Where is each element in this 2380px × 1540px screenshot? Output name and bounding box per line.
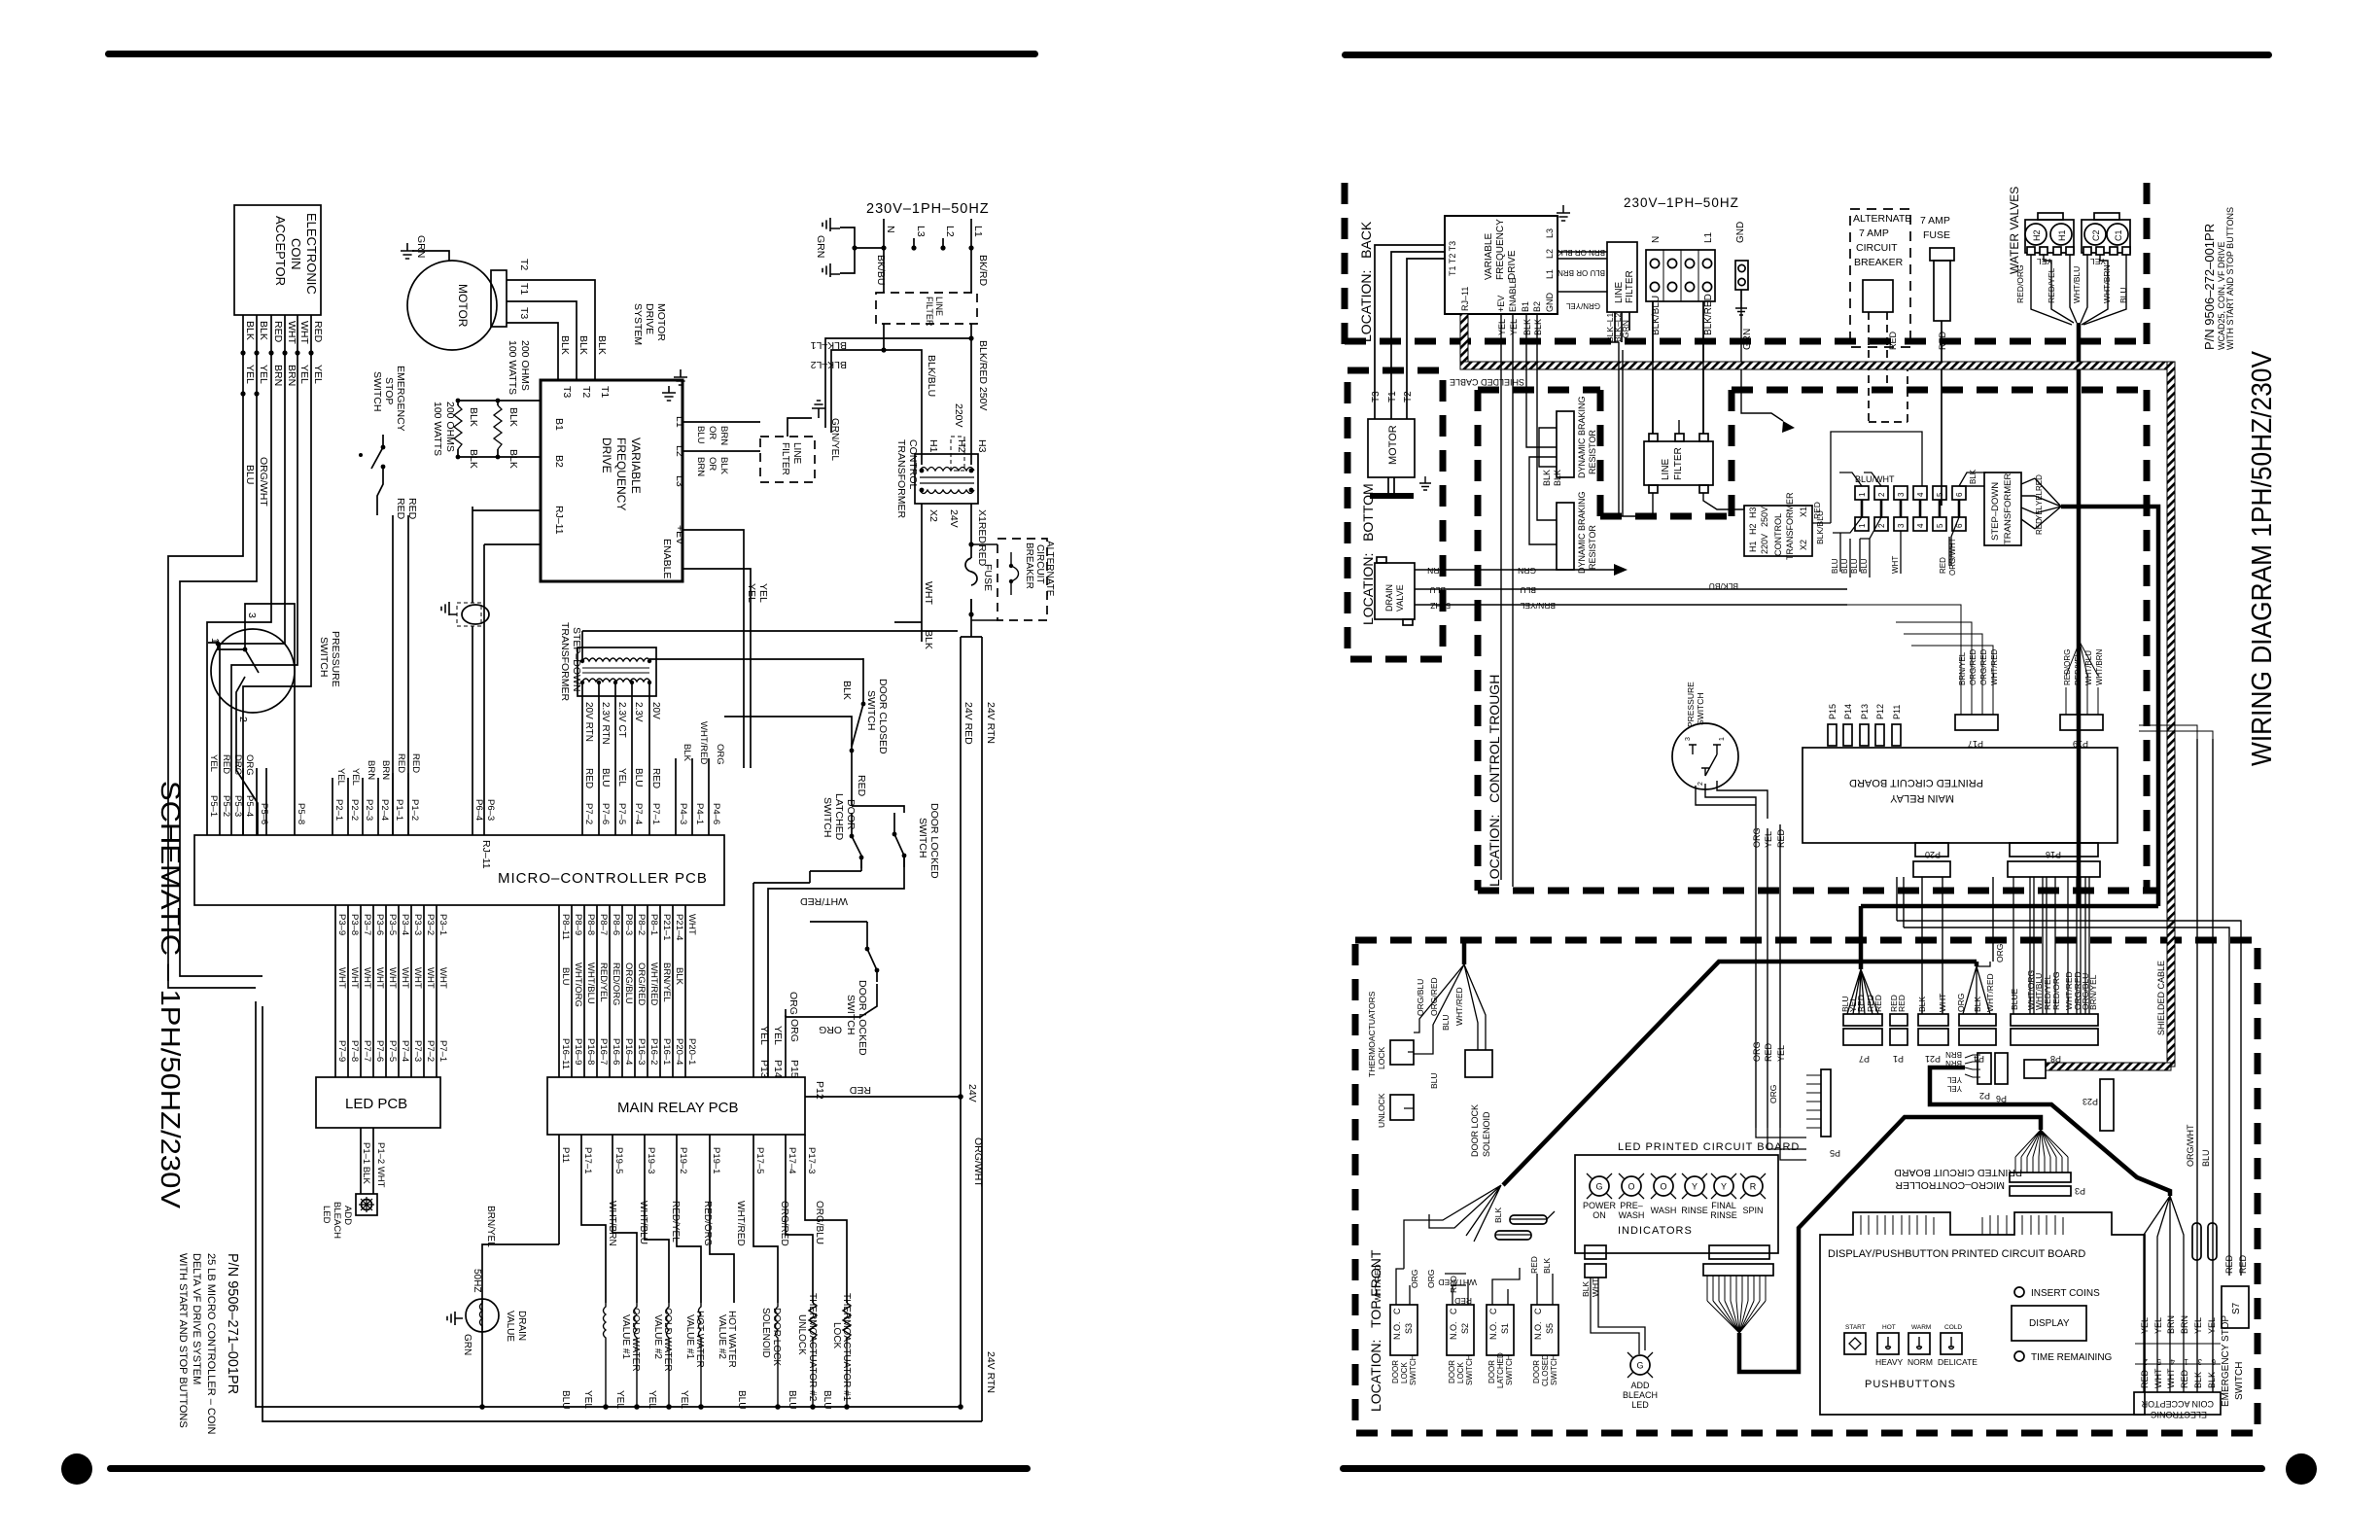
svg-text:BLU: BLU xyxy=(2201,1149,2211,1167)
svg-text:P6–3: P6–3 xyxy=(485,799,496,821)
svg-text:BRN: BRN xyxy=(2180,1315,2189,1334)
svg-text:RED: RED xyxy=(1812,502,1822,519)
svg-text:ENABLE: ENABLE xyxy=(1508,277,1518,312)
svg-text:SWITCH: SWITCH xyxy=(1409,1354,1417,1385)
svg-text:VARIABLE: VARIABLE xyxy=(629,437,643,494)
svg-text:X2: X2 xyxy=(1799,540,1808,550)
svg-text:6: 6 xyxy=(1955,492,1964,497)
svg-text:P2–2: P2–2 xyxy=(349,799,360,821)
svg-text:P21–1: P21–1 xyxy=(661,914,672,940)
svg-text:CIRCUIT: CIRCUIT xyxy=(1034,544,1045,584)
svg-text:YEL: YEL xyxy=(2207,1317,2217,1334)
svg-text:DISPLAY/PUSHBUTTON PRINTED C: DISPLAY/PUSHBUTTON PRINTED CIRCUIT BOARD xyxy=(1828,1248,2085,1260)
svg-text:DOOR: DOOR xyxy=(1448,1360,1456,1383)
svg-text:P7–6: P7–6 xyxy=(600,803,611,824)
svg-text:SWITCH: SWITCH xyxy=(1550,1354,1558,1385)
svg-text:BLK: BLK xyxy=(468,407,479,427)
svg-text:T1: T1 xyxy=(599,386,611,398)
svg-text:TRANSFORMER: TRANSFORMER xyxy=(2003,473,2013,545)
svg-text:LATCHED: LATCHED xyxy=(1496,1352,1505,1388)
svg-text:ORG: ORG xyxy=(787,992,799,1015)
svg-text:WHT: WHT xyxy=(1938,994,1947,1012)
svg-text:GND: GND xyxy=(1735,222,1746,243)
svg-text:STOP: STOP xyxy=(383,377,395,404)
svg-text:P7–8: P7–8 xyxy=(349,1040,360,1062)
svg-text:SWITCH: SWITCH xyxy=(865,690,877,730)
svg-text:RED: RED xyxy=(1764,1042,1773,1062)
svg-text:WHT/BRN: WHT/BRN xyxy=(2095,648,2104,685)
svg-text:G: G xyxy=(1595,1182,1602,1192)
svg-text:DELICATE: DELICATE xyxy=(1938,1357,1977,1367)
svg-text:BLUE: BLUE xyxy=(2010,988,2019,1010)
svg-text:RED: RED xyxy=(395,498,406,520)
svg-text:WATER VALVES: WATER VALVES xyxy=(2008,187,2021,274)
svg-text:DOOR: DOOR xyxy=(1487,1360,1496,1383)
svg-text:DOOR CLOSED: DOOR CLOSED xyxy=(877,679,889,754)
svg-text:EMERGENCY STOP: EMERGENCY STOP xyxy=(2221,1315,2231,1407)
svg-text:P3–3: P3–3 xyxy=(412,914,423,935)
svg-text:3: 3 xyxy=(1897,523,1906,528)
svg-text:ENABLE: ENABLE xyxy=(661,539,673,578)
svg-text:T2: T2 xyxy=(580,386,592,398)
svg-text:BRN/YEL: BRN/YEL xyxy=(1958,651,1967,685)
svg-text:VALUE #1: VALUE #1 xyxy=(684,1314,695,1359)
svg-text:T3: T3 xyxy=(1371,391,1382,402)
svg-text:P17–5: P17–5 xyxy=(754,1147,765,1173)
svg-text:T3: T3 xyxy=(518,307,530,319)
svg-text:SPIN: SPIN xyxy=(1742,1206,1763,1215)
svg-text:RJ–11: RJ–11 xyxy=(553,506,565,535)
svg-text:ORG/RED: ORG/RED xyxy=(1969,648,1977,685)
svg-text:O: O xyxy=(1660,1182,1666,1192)
svg-text:BLK: BLK xyxy=(1542,470,1552,486)
svg-text:ACCEPTOR: ACCEPTOR xyxy=(273,216,288,286)
svg-text:G: G xyxy=(1636,1361,1643,1371)
svg-text:H2: H2 xyxy=(2032,229,2042,241)
svg-text:2: 2 xyxy=(1877,492,1886,497)
svg-text:S1: S1 xyxy=(1500,1323,1510,1334)
svg-text:CLOSED: CLOSED xyxy=(1541,1354,1550,1386)
svg-text:ORG: ORG xyxy=(788,1019,800,1042)
svg-text:BLK: BLK xyxy=(468,449,479,469)
svg-text:P2–1: P2–1 xyxy=(333,799,344,821)
svg-text:1: 1 xyxy=(1858,492,1867,497)
svg-text:YEL: YEL xyxy=(772,1026,784,1045)
svg-text:P7–1: P7–1 xyxy=(650,803,661,824)
svg-text:LOCK: LOCK xyxy=(1456,1362,1465,1383)
svg-text:P20–1: P20–1 xyxy=(686,1038,697,1065)
svg-text:2.3V: 2.3V xyxy=(633,702,644,722)
svg-text:ORG/BLU: ORG/BLU xyxy=(1416,979,1425,1016)
svg-text:GND: GND xyxy=(1545,293,1555,313)
svg-text:ORG/RED: ORG/RED xyxy=(636,962,647,1005)
svg-text:GRN: GRN xyxy=(815,235,826,258)
svg-text:RJ–11: RJ–11 xyxy=(480,840,492,869)
svg-text:RED/ORG: RED/ORG xyxy=(2051,971,2061,1010)
svg-text:ORG/WHT: ORG/WHT xyxy=(1948,538,1957,576)
svg-text:P3: P3 xyxy=(2075,1186,2085,1196)
svg-text:COIN: COIN xyxy=(289,238,303,270)
svg-text:BLK/RED 250V: BLK/RED 250V xyxy=(977,340,989,410)
svg-text:UNLOCK: UNLOCK xyxy=(1377,1093,1386,1128)
svg-text:WHT/RED: WHT/RED xyxy=(1454,987,1464,1026)
svg-text:WHT: WHT xyxy=(2166,1368,2176,1388)
svg-text:B2: B2 xyxy=(1532,301,1542,312)
svg-text:P7–5: P7–5 xyxy=(387,1040,398,1062)
svg-text:FILTER: FILTER xyxy=(780,442,790,475)
svg-text:PRINTED CIRCUIT BOARD: PRINTED CIRCUIT BOARD xyxy=(1894,1167,2022,1178)
svg-text:BLK: BLK xyxy=(923,630,934,649)
svg-text:MOTOR: MOTOR xyxy=(456,284,470,328)
svg-text:P/N 9506–272–001PR: P/N 9506–272–001PR xyxy=(2202,224,2217,350)
svg-text:P5: P5 xyxy=(1830,1148,1840,1158)
svg-text:P15: P15 xyxy=(788,1060,800,1078)
svg-text:X1: X1 xyxy=(1799,507,1808,517)
svg-text:P3–5: P3–5 xyxy=(387,914,398,935)
svg-text:P19–2: P19–2 xyxy=(678,1147,688,1173)
svg-text:BLU: BLU xyxy=(1429,1072,1439,1089)
svg-text:YEL: YEL xyxy=(757,583,769,603)
svg-text:100 WATTS: 100 WATTS xyxy=(507,340,518,395)
svg-text:S3: S3 xyxy=(1404,1323,1414,1334)
svg-text:WHT/BRN: WHT/BRN xyxy=(607,1201,617,1246)
svg-text:VALUE #2: VALUE #2 xyxy=(717,1314,727,1359)
svg-text:SOLENOID: SOLENOID xyxy=(760,1308,771,1358)
svg-text:WHT: WHT xyxy=(387,967,398,989)
svg-text:T3: T3 xyxy=(561,386,573,398)
svg-text:RED: RED xyxy=(221,754,231,774)
svg-text:GRN: GRN xyxy=(415,235,427,258)
svg-text:P13: P13 xyxy=(1860,704,1870,719)
svg-text:RINSE: RINSE xyxy=(1681,1206,1708,1215)
svg-text:R: R xyxy=(1750,1182,1757,1192)
svg-text:BLU: BLU xyxy=(633,768,644,787)
svg-text:BRN/YEL: BRN/YEL xyxy=(661,962,672,1002)
svg-text:DRAIN: DRAIN xyxy=(516,1311,527,1341)
svg-text:7 AMP: 7 AMP xyxy=(1920,215,1950,227)
svg-text:24V RTN: 24V RTN xyxy=(985,702,997,744)
svg-text:PRESSURE: PRESSURE xyxy=(330,631,341,687)
svg-text:BLK: BLK xyxy=(1917,997,1927,1012)
svg-text:SWITCH: SWITCH xyxy=(1465,1354,1474,1385)
svg-text:MAIN RELAY: MAIN RELAY xyxy=(1890,792,1954,804)
svg-text:ORG: ORG xyxy=(1752,1041,1762,1062)
svg-text:BLK: BLK xyxy=(1581,1281,1591,1297)
svg-text:HEAVY: HEAVY xyxy=(1875,1357,1904,1367)
svg-text:BLU: BLU xyxy=(1520,585,1536,595)
svg-text:FUSE: FUSE xyxy=(1923,229,1950,241)
svg-text:WHT/RED: WHT/RED xyxy=(698,721,709,764)
svg-text:RED: RED xyxy=(1897,995,1907,1012)
svg-text:BLK: BLK xyxy=(596,335,608,355)
svg-text:BLK: BLK xyxy=(559,335,571,355)
svg-text:YEL: YEL xyxy=(335,768,346,786)
svg-text:BREAKER: BREAKER xyxy=(1854,257,1904,268)
svg-text:P7–6: P7–6 xyxy=(374,1040,385,1062)
svg-text:T2: T2 xyxy=(518,259,530,270)
svg-text:BLK: BLK xyxy=(682,744,692,762)
svg-text:25 LB MICRO CONTROLLER – COIN: 25 LB MICRO CONTROLLER – COIN xyxy=(205,1253,217,1434)
svg-text:BLK/RED: BLK/RED xyxy=(1703,294,1714,335)
svg-text:BLK: BLK xyxy=(507,449,519,469)
svg-text:HOT: HOT xyxy=(1882,1324,1896,1331)
svg-text:P3–1: P3–1 xyxy=(437,914,448,935)
svg-text:RED: RED xyxy=(2224,1254,2234,1274)
svg-text:ORG: ORG xyxy=(1752,827,1762,848)
svg-text:S7: S7 xyxy=(2231,1302,2242,1314)
svg-text:S2: S2 xyxy=(1460,1323,1470,1334)
svg-text:DOOR: DOOR xyxy=(845,799,857,830)
svg-text:2: 2 xyxy=(237,717,249,722)
svg-text:ORG/RED: ORG/RED xyxy=(1979,648,1988,685)
svg-text:P8–2: P8–2 xyxy=(636,914,647,935)
svg-text:GRN: GRN xyxy=(1518,566,1536,576)
svg-text:P5–1: P5–1 xyxy=(208,795,219,817)
svg-text:RED: RED xyxy=(396,753,406,773)
svg-text:BLU: BLU xyxy=(1860,558,1869,574)
svg-text:FILTER: FILTER xyxy=(1673,447,1684,480)
svg-text:P16–8: P16–8 xyxy=(585,1038,596,1065)
svg-text:TRANSFORMER: TRANSFORMER xyxy=(559,622,571,702)
svg-text:LINE: LINE xyxy=(1614,281,1625,303)
svg-text:CIRCUIT: CIRCUIT xyxy=(1856,242,1898,254)
svg-text:P6–4: P6–4 xyxy=(473,799,484,821)
svg-text:SWITCH: SWITCH xyxy=(371,371,383,411)
svg-text:POWER: POWER xyxy=(1583,1201,1617,1210)
svg-text:3: 3 xyxy=(2197,1357,2202,1366)
svg-text:WHT: WHT xyxy=(400,967,410,989)
svg-text:MOTOR: MOTOR xyxy=(1387,425,1399,465)
svg-text:LED PRINTED CIRCUIT BOARD: LED PRINTED CIRCUIT BOARD xyxy=(1618,1141,1800,1153)
svg-text:WARM: WARM xyxy=(1911,1324,1931,1331)
svg-text:DOOR LOCK: DOOR LOCK xyxy=(771,1308,782,1366)
svg-text:P7–9: P7–9 xyxy=(336,1040,347,1062)
svg-text:BLK: BLK xyxy=(258,321,269,340)
svg-text:BLK: BLK xyxy=(1969,469,1977,484)
svg-text:ORG/WHT: ORG/WHT xyxy=(972,1137,984,1187)
svg-text:RED: RED xyxy=(1856,995,1866,1012)
svg-text:P21–4: P21–4 xyxy=(674,914,684,940)
svg-text:BLU: BLU xyxy=(1850,558,1859,574)
svg-text:P7–7: P7–7 xyxy=(362,1040,372,1062)
svg-text:4: 4 xyxy=(1916,492,1925,497)
svg-text:SWITCH: SWITCH xyxy=(822,797,833,837)
svg-text:VALUE #1: VALUE #1 xyxy=(620,1314,631,1359)
svg-text:3: 3 xyxy=(1685,737,1692,741)
svg-text:B2: B2 xyxy=(553,455,565,468)
svg-text:2.3V CT: 2.3V CT xyxy=(616,702,627,738)
svg-text:P3–4: P3–4 xyxy=(400,914,410,935)
svg-text:ORG/RED: ORG/RED xyxy=(779,1201,789,1246)
svg-text:YEL: YEL xyxy=(1776,1045,1786,1062)
svg-text:RED: RED xyxy=(849,1084,871,1096)
svg-text:WHT: WHT xyxy=(412,967,423,989)
svg-text:P1–2: P1–2 xyxy=(409,799,420,821)
svg-text:COIN ACCEPTOR: COIN ACCEPTOR xyxy=(2141,1399,2214,1409)
svg-text:BRN OR BLK: BRN OR BLK xyxy=(1557,248,1605,257)
svg-text:C: C xyxy=(1533,1308,1543,1314)
svg-text:DOOR LOCK: DOOR LOCK xyxy=(1470,1104,1480,1157)
svg-text:P8–8: P8–8 xyxy=(585,914,596,935)
svg-text:PRINTED CIRCUIT BOARD: PRINTED CIRCUIT BOARD xyxy=(1849,777,1983,788)
svg-text:OR: OR xyxy=(707,426,717,439)
svg-text:UNLOCK: UNLOCK xyxy=(796,1314,807,1355)
svg-text:WHT/RED: WHT/RED xyxy=(800,895,848,907)
svg-text:BRN: BRN xyxy=(2166,1315,2176,1334)
svg-text:BLK: BLK xyxy=(1542,1258,1552,1274)
svg-text:P3–8: P3–8 xyxy=(349,914,360,935)
svg-text:BK/BU: BK/BU xyxy=(875,255,887,286)
svg-text:YEL: YEL xyxy=(350,768,361,786)
svg-text:ADD: ADD xyxy=(342,1206,353,1225)
svg-text:BK/RD: BK/RD xyxy=(977,255,989,287)
svg-text:FILTER: FILTER xyxy=(925,297,934,327)
svg-text:P16–2: P16–2 xyxy=(648,1038,659,1065)
svg-text:RED: RED xyxy=(1939,557,1947,574)
svg-text:RED: RED xyxy=(650,768,661,788)
svg-text:P7–3: P7–3 xyxy=(412,1040,423,1062)
svg-text:YEL: YEL xyxy=(2153,1317,2163,1334)
svg-text:MICRO–CONTROLLER: MICRO–CONTROLLER xyxy=(1895,1179,2005,1191)
svg-text:N: N xyxy=(1651,236,1662,243)
svg-text:2: 2 xyxy=(1877,523,1886,528)
svg-text:24V: 24V xyxy=(966,1084,978,1102)
svg-text:C: C xyxy=(1392,1308,1402,1314)
svg-text:P2–3: P2–3 xyxy=(364,799,374,821)
svg-text:H3: H3 xyxy=(1748,507,1758,518)
svg-text:3: 3 xyxy=(1897,492,1906,497)
svg-text:DRIVE: DRIVE xyxy=(600,437,613,473)
svg-text:L1: L1 xyxy=(972,226,984,237)
svg-text:WHT: WHT xyxy=(2153,1368,2163,1388)
svg-text:P8–3: P8–3 xyxy=(623,914,634,935)
svg-text:ON: ON xyxy=(1592,1210,1606,1220)
svg-text:LED: LED xyxy=(1631,1400,1649,1410)
svg-text:YEL: YEL xyxy=(258,365,269,384)
svg-text:ORG/BLU: ORG/BLU xyxy=(623,962,634,1004)
svg-text:RJ–11: RJ–11 xyxy=(1460,287,1470,311)
svg-text:P12: P12 xyxy=(814,1081,825,1100)
svg-text:C1: C1 xyxy=(2114,229,2123,241)
svg-text:RED/ORG: RED/ORG xyxy=(611,962,621,1005)
svg-text:BRN: BRN xyxy=(380,760,391,780)
svg-text:H1: H1 xyxy=(927,439,939,453)
svg-text:RED: RED xyxy=(1873,995,1883,1012)
svg-text:RED: RED xyxy=(856,775,867,797)
svg-text:WHT: WHT xyxy=(362,967,372,989)
svg-text:RED: RED xyxy=(410,753,421,773)
svg-text:P2: P2 xyxy=(1979,1091,1990,1101)
svg-text:RED: RED xyxy=(2180,1369,2189,1388)
svg-text:WHT/RED: WHT/RED xyxy=(1373,1264,1382,1303)
svg-text:LED: LED xyxy=(321,1206,332,1224)
svg-text:P2–4: P2–4 xyxy=(379,799,390,821)
svg-text:BRN: BRN xyxy=(286,365,297,386)
svg-text:BLU: BLU xyxy=(695,426,706,444)
svg-text:WASH: WASH xyxy=(1651,1206,1677,1215)
svg-text:5: 5 xyxy=(2156,1357,2161,1366)
svg-text:LED PCB: LED PCB xyxy=(345,1096,407,1112)
svg-text:DRAIN: DRAIN xyxy=(1384,584,1394,612)
svg-text:C2: C2 xyxy=(2091,229,2101,241)
svg-text:RED/ORG: RED/ORG xyxy=(702,1201,713,1246)
svg-text:RED: RED xyxy=(1529,1256,1539,1274)
svg-text:P3–6: P3–6 xyxy=(374,914,385,935)
svg-text:RED: RED xyxy=(976,544,988,567)
svg-text:24V: 24V xyxy=(948,509,960,528)
svg-text:P1–2 WHT: P1–2 WHT xyxy=(375,1142,386,1188)
svg-text:WHT: WHT xyxy=(425,967,436,989)
svg-text:BLU: BLU xyxy=(600,768,611,787)
svg-text:ORG/WHT: ORG/WHT xyxy=(258,457,269,507)
svg-text:H1: H1 xyxy=(1748,541,1758,552)
svg-text:WHT: WHT xyxy=(1891,556,1900,574)
svg-text:YEL: YEL xyxy=(244,365,256,384)
svg-text:SOLENOID: SOLENOID xyxy=(1482,1111,1491,1157)
svg-text:YEL: YEL xyxy=(208,754,219,772)
svg-text:BRN: BRN xyxy=(1945,1050,1962,1059)
svg-text:20V RTN: 20V RTN xyxy=(583,702,594,742)
svg-text:P16–7: P16–7 xyxy=(598,1038,609,1065)
svg-text:P14: P14 xyxy=(1843,704,1853,719)
svg-text:B1: B1 xyxy=(1521,301,1530,312)
svg-text:BLU/WHT: BLU/WHT xyxy=(1855,474,1895,484)
svg-text:RED/YEL: RED/YEL xyxy=(598,962,609,1002)
svg-text:H2: H2 xyxy=(956,439,967,453)
svg-text:WHT: WHT xyxy=(686,914,697,935)
svg-text:P3–9: P3–9 xyxy=(336,914,347,935)
svg-text:50HZ: 50HZ xyxy=(1430,601,1451,611)
svg-text:WHT/RED: WHT/RED xyxy=(1985,973,1995,1012)
svg-text:CONTROL: CONTROL xyxy=(1773,513,1783,556)
svg-text:ORG: ORG xyxy=(244,754,255,776)
svg-text:P1: P1 xyxy=(1893,1054,1904,1064)
svg-text:H1: H1 xyxy=(2057,229,2067,241)
svg-text:L3: L3 xyxy=(915,226,927,237)
svg-text:LOCK: LOCK xyxy=(1400,1362,1409,1383)
svg-text:YEL: YEL xyxy=(298,365,310,384)
svg-text:RED: RED xyxy=(1938,331,1947,350)
svg-text:BLU: BLU xyxy=(244,465,256,484)
svg-text:L1: L1 xyxy=(1703,231,1714,243)
svg-text:RESISTOR: RESISTOR xyxy=(1588,525,1597,570)
svg-text:VALUE #2: VALUE #2 xyxy=(652,1314,663,1359)
svg-text:ORG: ORG xyxy=(715,744,725,765)
svg-text:LATCHED: LATCHED xyxy=(833,793,845,841)
svg-text:S5: S5 xyxy=(1545,1323,1555,1334)
svg-text:DRIVE: DRIVE xyxy=(1507,250,1518,280)
svg-text:P17–1: P17–1 xyxy=(582,1147,593,1173)
svg-text:LOCK: LOCK xyxy=(831,1322,842,1349)
svg-text:PRE–: PRE– xyxy=(1620,1201,1643,1210)
svg-text:T1 T2 T3: T1 T2 T3 xyxy=(1448,241,1457,276)
svg-text:230V–1PH–50HZ: 230V–1PH–50HZ xyxy=(866,201,990,217)
svg-text:P5–4: P5–4 xyxy=(244,795,255,817)
svg-text:P11: P11 xyxy=(560,1147,571,1163)
svg-text:C: C xyxy=(1488,1308,1498,1314)
svg-text:ADD: ADD xyxy=(1630,1381,1650,1390)
svg-text:P11: P11 xyxy=(1892,705,1902,719)
svg-text:N.O.: N.O. xyxy=(1449,1321,1458,1340)
svg-text:WHT/BLU: WHT/BLU xyxy=(585,962,596,1004)
svg-text:P8–11: P8–11 xyxy=(560,914,571,940)
svg-text:WHT/RED: WHT/RED xyxy=(1990,648,1999,685)
svg-text:P7–4: P7–4 xyxy=(633,803,644,824)
svg-text:BLK: BLK xyxy=(718,457,729,475)
svg-text:FILTER: FILTER xyxy=(1625,270,1635,303)
svg-text:N.O.: N.O. xyxy=(1392,1321,1402,1340)
svg-text:P5–2: P5–2 xyxy=(221,795,231,817)
